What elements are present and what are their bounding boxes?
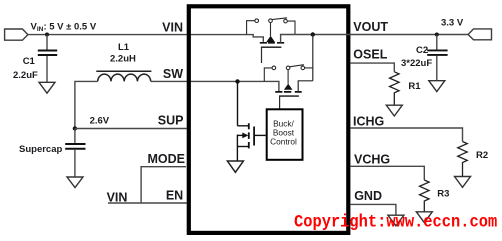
svg-text:EN: EN [166, 188, 183, 202]
svg-text:2.6V: 2.6V [90, 116, 110, 127]
transistor Q1 body diode [266, 36, 275, 42]
svg-text:OSEL: OSEL [353, 47, 387, 61]
port P1 VIN input tag [5, 29, 28, 40]
svg-text:VCHG: VCHG [354, 152, 390, 166]
transistor Q2 gate select switch circles [272, 66, 305, 70]
svg-text:C1: C1 [23, 56, 36, 67]
node SUP junction [73, 126, 77, 130]
transistor Q1 channel segments [260, 42, 284, 44]
svg-text:3.3 V: 3.3 V [441, 17, 464, 28]
wire Q3 gate lead to control [254, 134, 266, 136]
wire Q1 drain riser to VOUT [281, 35, 469, 43]
wire Q1 gate lead [261, 47, 263, 63]
svg-text:C2: C2 [416, 45, 428, 56]
resistor R1 [390, 72, 400, 105]
ground C2 [429, 81, 445, 92]
svg-text:L1: L1 [118, 42, 130, 53]
wire Q2 right stub [298, 81, 313, 92]
ground internal [227, 161, 243, 172]
svg-text:Control: Control [270, 136, 297, 146]
wire OSEL net [350, 63, 394, 72]
transistor Q3 body stub with arrow [237, 134, 243, 136]
label copyright watermark [294, 214, 497, 232]
svg-text:2.2uF: 2.2uF [13, 70, 38, 81]
wire C2 bottom lead [436, 56, 438, 81]
wire C1 top lead [46, 35, 48, 50]
wire Q1 switch right leg [287, 21, 295, 34]
transistor Q2 body diode [284, 84, 293, 90]
wire VOUT riser to Q2 [312, 35, 314, 81]
svg-text:Supercap: Supercap [19, 144, 62, 155]
node VIN/C1 junction [45, 33, 49, 37]
control block U2 Buck/Boost [267, 109, 303, 160]
wire Q2 switch left leg [264, 68, 272, 82]
wire ICHG net [350, 128, 463, 142]
op-amp U1 IC outline [189, 6, 348, 233]
capacitor C1 [38, 51, 57, 56]
svg-text:R3: R3 [437, 188, 449, 199]
transistor Q3 source stub [237, 146, 248, 148]
transistor Q2 channel segments [275, 91, 301, 93]
svg-text:ICHG: ICHG [353, 114, 384, 128]
svg-text:3*22uF: 3*22uF [401, 58, 432, 69]
svg-text:GND: GND [354, 189, 382, 203]
wire VIN net [28, 35, 263, 42]
svg-text:VOUT: VOUT [353, 20, 388, 34]
transistor Q3 drain lead [237, 81, 248, 125]
svg-text:VIN: 5 V ± 0.5 V: VIN: 5 V ± 0.5 V [31, 21, 97, 33]
node VOUT inner junction [311, 32, 315, 36]
ground C1 [39, 82, 55, 93]
transistor Q1 gate plate [261, 46, 282, 48]
wire Q1 body lead [270, 23, 272, 37]
wire VCHG net [350, 166, 424, 180]
svg-text:SW: SW [163, 67, 183, 81]
svg-text:SUP: SUP [158, 114, 184, 128]
wire Q3 source to ground [236, 135, 238, 162]
wire Q2 gate lead to control [279, 96, 281, 108]
wire Q1 switch lever [272, 18, 287, 20]
capacitor supercap [65, 144, 85, 149]
wire GND net [350, 204, 396, 215]
svg-text:R1: R1 [408, 81, 421, 92]
wire EN net [108, 202, 187, 204]
ground supercap [67, 177, 83, 188]
transistor Q2 gate plate [279, 95, 299, 97]
wire MODE net [141, 167, 186, 203]
wire Q2 switch right leg [305, 67, 313, 69]
wire SUP net [75, 128, 187, 130]
svg-text:2.2uH: 2.2uH [110, 54, 136, 65]
transistor Q1 gate select switch circles [255, 19, 287, 23]
ground GND pin [388, 215, 404, 226]
ground R1 [386, 105, 402, 116]
wire Q2 switch lever [290, 65, 304, 67]
wire SW net [151, 81, 279, 92]
capacitor C2 [427, 50, 447, 55]
resistor R2 [458, 142, 468, 177]
svg-text:R2: R2 [476, 150, 488, 161]
svg-text:VIN: VIN [162, 20, 183, 34]
inductor L1 [96, 71, 151, 81]
resistor R3 [420, 180, 430, 212]
wire supercap top lead [74, 129, 76, 143]
wire Q1 switch left leg [247, 21, 255, 35]
wire C2 top lead [436, 35, 438, 50]
node VOUT/C2 junction [435, 33, 439, 37]
port P2 VOUT output tag [468, 29, 491, 40]
transistor Q3 gate bar [253, 127, 255, 146]
transistor Q3 channel segments [248, 123, 250, 148]
wire L1 left leg to SUP node [75, 81, 98, 128]
ground R2 [455, 177, 471, 188]
wire Q2 body lead [287, 70, 289, 84]
wire C1 bottom lead [46, 56, 48, 82]
ground R3 [416, 212, 432, 223]
node SW junction [235, 79, 239, 83]
wire supercap bottom lead [74, 150, 76, 177]
svg-text:MODE: MODE [148, 152, 186, 166]
